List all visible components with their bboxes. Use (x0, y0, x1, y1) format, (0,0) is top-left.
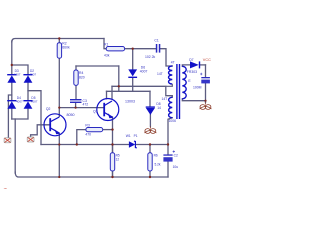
svg-text:14: 14 (157, 106, 161, 110)
svg-text:Q2: Q2 (46, 107, 51, 111)
wire riser x118.8 (118, 66, 120, 91)
svg-text:D7: D7 (189, 58, 193, 62)
svg-text:12: 12 (116, 158, 120, 162)
svg-text:14T: 14T (162, 97, 168, 101)
svg-text:4007: 4007 (14, 73, 21, 77)
svg-text:4T: 4T (171, 60, 175, 64)
svg-text:C2: C2 (174, 153, 178, 157)
wire left edge bridge column A upper (11, 41, 13, 75)
svg-text:R4: R4 (79, 71, 83, 75)
wire R4 top corner from y66 rail (75, 66, 77, 70)
AC terminal T1 (4, 138, 11, 143)
wire D2 bottom to AC right node (27, 83, 29, 101)
svg-text:R6: R6 (154, 153, 158, 157)
transistor Q2 (44, 114, 66, 136)
wire R4 bottom to C3 (75, 85, 77, 99)
svg-text:13003: 13003 (125, 99, 135, 103)
svg-text:472: 472 (83, 102, 89, 106)
diode D4 (7, 100, 16, 109)
wire D5 bottom to DC minus join (12, 108, 28, 119)
wire transformer lower winding bottom to C2 branch (168, 118, 172, 145)
capacitor C1 (156, 44, 161, 53)
wire bottom rail (15, 172, 168, 177)
svg-text:820: 820 (79, 76, 85, 80)
resistor R3 (86, 128, 103, 132)
diode D2 (23, 74, 32, 83)
diode D6 (128, 69, 137, 78)
wire rail y144.5 left segment to zener (41, 144, 129, 146)
ground output (200, 103, 212, 110)
wire base rail y107.6 (59, 107, 104, 109)
wire D6 top lead (132, 49, 134, 70)
wire T1 lead (8, 95, 11, 138)
wire D7 cathode to VCC node (200, 64, 206, 66)
svg-text:4007: 4007 (31, 99, 38, 103)
svg-text:4007: 4007 (29, 73, 36, 77)
diode D7 (190, 61, 200, 68)
svg-text:8050: 8050 (67, 113, 75, 117)
wire R5 body gap (112, 145, 114, 178)
wire D8 bottom lead to ground (149, 115, 151, 127)
svg-text:14T: 14T (157, 72, 163, 76)
transformer T1 primary winding top 4T (169, 66, 173, 84)
svg-text:C1: C1 (154, 39, 158, 43)
wire rail y144.5 right segment from zener (137, 144, 168, 146)
wire D8 top lead (149, 91, 151, 106)
wire R2 top stub (58, 39, 60, 43)
wire R1 rail through C1 (125, 48, 156, 50)
svg-text:VCC: VCC (203, 58, 211, 62)
resistor R2 (57, 43, 61, 59)
wire C2 branch x168 (167, 145, 169, 178)
svg-text:4007: 4007 (140, 70, 148, 74)
wire Q3 emitter down (112, 117, 114, 177)
svg-text:W1: W1 (126, 134, 131, 138)
wire Q3 second top stub (106, 91, 108, 98)
wire DC minus drop (14, 119, 16, 173)
svg-text:~: ~ (4, 187, 7, 193)
wire secondary top to D7 (182, 65, 190, 66)
wire cap bottom down (205, 83, 207, 102)
svg-text:R3: R3 (85, 124, 89, 128)
transformer T1 feedback winding 14T (169, 97, 173, 117)
svg-text:R1: R1 (104, 43, 108, 47)
wire D4 bottom down (11, 108, 13, 119)
zener W1 (129, 141, 137, 148)
wire Q2 base (31, 125, 50, 137)
AC terminal T2 (27, 137, 34, 142)
ground under D8 (144, 127, 156, 134)
wire C3 bottom to base rail (75, 103, 77, 108)
svg-text:5.2k: 5.2k (155, 162, 161, 166)
diode D5 (23, 100, 32, 109)
wire R6 stubs (149, 145, 151, 178)
wire R2 bottom to Q2 collector (58, 58, 60, 116)
wire AC right node jog to x41 (28, 91, 41, 145)
svg-text:660k: 660k (62, 45, 70, 49)
wire yB rail (107, 90, 151, 92)
wire R3 left lead (77, 130, 86, 145)
wire bridge top jog to column B (12, 65, 28, 75)
transistor Q3 (97, 99, 119, 121)
svg-text:102 2k: 102 2k (145, 55, 155, 59)
wire C1 right to riser x166 (160, 49, 172, 66)
resistor R6 (148, 153, 152, 171)
svg-text:100M: 100M (193, 85, 202, 89)
diode D8 (146, 106, 155, 115)
wire R3 right lead (103, 129, 113, 131)
wire VCC node down to cap (205, 65, 207, 78)
wire Q3 collector stub (111, 86, 113, 98)
resistor R5 (110, 153, 114, 171)
transformer T1 secondary winding (182, 66, 186, 99)
wire top rail (12, 39, 104, 43)
wire D6 bottom lead to yB (132, 78, 134, 92)
svg-text:FR303: FR303 (187, 70, 197, 74)
capacitor C3 (70, 99, 82, 103)
wire D3 to D4 column A (11, 83, 13, 101)
wire secondary bottom rail (182, 99, 205, 101)
svg-text:470: 470 (85, 132, 91, 136)
wire yA rail to transformer tap (112, 86, 172, 97)
wire Q2 emitter down (58, 133, 60, 177)
diode D3 (7, 74, 16, 83)
wire top rail drop to R1 rail (104, 39, 107, 49)
resistor R1 (106, 47, 124, 51)
svg-text:43k: 43k (104, 53, 110, 57)
capacitor C4 output (200, 73, 210, 84)
wire y66 rail (76, 65, 119, 67)
svg-text:4007: 4007 (16, 99, 23, 103)
transformer T1 core (177, 64, 180, 119)
svg-text:P1: P1 (134, 134, 138, 138)
svg-text:1006: 1006 (169, 119, 177, 123)
capacitor C2 (163, 150, 175, 161)
svg-text:10u: 10u (173, 165, 179, 169)
resistor R4 (74, 70, 78, 85)
svg-text:Q3: Q3 (93, 109, 98, 113)
transformer T1 primary tap link (166, 84, 173, 86)
